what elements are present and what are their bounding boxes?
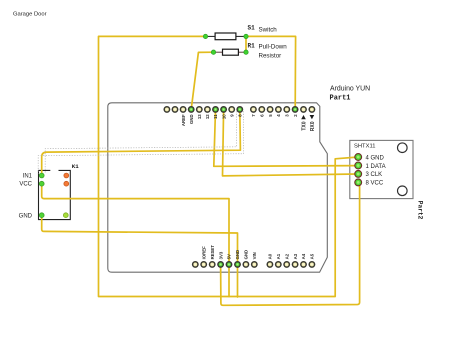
svg-text:1 DATA: 1 DATA	[366, 164, 386, 170]
svg-text:Pull-Down: Pull-Down	[259, 44, 288, 51]
bottom header pins (IOREF RESET 3V3 5V GND GND VIN row)	[193, 245, 257, 267]
junction R1 left	[211, 50, 215, 54]
svg-text:R1: R1	[248, 43, 256, 50]
svg-text:S1: S1	[248, 25, 256, 32]
pin K1 right mid (unconnected)	[64, 181, 69, 186]
wire K1 GND to GND pin bottom row	[42, 215, 238, 264]
pin SHTX11 3 CLK	[355, 171, 362, 178]
svg-text:Switch: Switch	[259, 27, 278, 34]
wire GND riser from GND pin to bottom rail	[237, 264, 239, 297]
svg-text:3 CLK: 3 CLK	[366, 172, 383, 178]
pin K1 right bottom	[63, 213, 68, 218]
wire 5V riser to 5V pin	[228, 264, 230, 296]
svg-text:Part1: Part1	[330, 95, 351, 103]
pin K1 VCC	[39, 181, 44, 186]
svg-text:SHTX11: SHTX11	[354, 144, 375, 150]
wire pin 11 to SHTX11 DATA	[214, 109, 358, 166]
svg-text:A0: A0	[268, 253, 273, 259]
part K1	[39, 170, 71, 219]
wire pin 8 to K1 IN1 (selected)	[42, 109, 241, 175]
wire 3V3 pin to SHTX11 VCC	[221, 182, 360, 305]
switch S1	[208, 33, 244, 40]
svg-text:Garage Door: Garage Door	[13, 12, 47, 18]
svg-text:Part2: Part2	[417, 201, 424, 220]
svg-text:11: 11	[213, 114, 218, 119]
Arduino YUN board outline	[108, 103, 327, 272]
junction R1 right	[244, 50, 248, 54]
wire 5V net: S1 left terminal to bottom rail to SHTX11 GND	[99, 36, 359, 296]
wire S1 right to R1 right	[245, 36, 247, 52]
svg-text:GND: GND	[189, 114, 194, 124]
svg-text:A1: A1	[276, 253, 281, 259]
resistor R1	[216, 49, 244, 55]
svg-text:RESET: RESET	[210, 245, 215, 260]
svg-text:IOREF: IOREF	[201, 246, 206, 260]
svg-text:A3: A3	[293, 253, 298, 259]
svg-text:TX0: TX0	[301, 121, 307, 130]
svg-text:Resistor: Resistor	[259, 53, 282, 60]
svg-text:10: 10	[221, 114, 226, 119]
svg-text:AREF: AREF	[181, 114, 186, 126]
svg-text:13: 13	[197, 114, 202, 119]
top header pins (7 6 5 4 3 2 TX0 RX0 row)	[251, 107, 316, 132]
junction S1 left	[203, 34, 207, 38]
svg-text:GND: GND	[235, 250, 240, 260]
pin SHTX11 1 DATA	[355, 162, 362, 169]
bottom header pins (A0-A5 row)	[267, 253, 314, 267]
wire switch node to pin 2	[246, 36, 296, 109]
pin K1 IN1	[39, 173, 44, 178]
pin K1 GND	[39, 213, 44, 218]
svg-text:VIN: VIN	[252, 252, 257, 259]
pin SHTX11 8 VCC	[355, 179, 362, 186]
part SHTX11 (Part2)	[350, 140, 413, 198]
svg-text:GND: GND	[19, 213, 33, 219]
svg-text:A4: A4	[301, 253, 306, 259]
svg-text:IN1: IN1	[23, 174, 33, 180]
pin K1 right top (unconnected)	[64, 173, 69, 178]
svg-text:RX0: RX0	[310, 121, 316, 131]
svg-text:A2: A2	[284, 253, 289, 259]
svg-text:VCC: VCC	[19, 182, 32, 188]
junction S1 right	[244, 34, 248, 38]
pin SHTX11 4 GND	[355, 154, 362, 161]
wire pin 10 to SHTX11 CLK	[223, 109, 359, 175]
top header pins (AREF GND 13 12 11 10 9 8 row)	[164, 107, 242, 126]
svg-text:5V: 5V	[227, 254, 232, 259]
svg-text:3V3: 3V3	[218, 251, 223, 259]
selection outline of wire pin8-IN1	[38, 111, 243, 173]
svg-text:GND: GND	[244, 250, 249, 260]
svg-text:4 GND: 4 GND	[366, 155, 385, 161]
svg-text:K1: K1	[72, 163, 79, 170]
svg-text:8 VCC: 8 VCC	[366, 181, 384, 187]
svg-text:12: 12	[205, 114, 210, 119]
wire R1 left to GND pin top row	[191, 52, 213, 109]
svg-text:A5: A5	[310, 253, 315, 259]
svg-text:Arduino YUN: Arduino YUN	[330, 86, 370, 93]
wire K1 VCC to 5V pin	[42, 184, 229, 265]
